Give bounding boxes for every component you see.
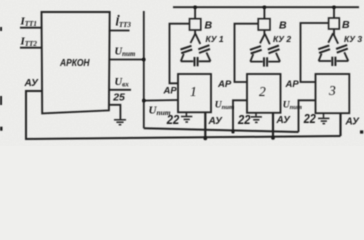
- ground under block 3: [318, 113, 329, 123]
- wire Uпит tap to block 1: [144, 99, 178, 102]
- svg-text:22: 22: [166, 113, 179, 127]
- svg-text:КУ 3: КУ 3: [344, 34, 362, 44]
- ground under block 1: [181, 112, 192, 122]
- ground for pin 25 of АРКОН: [114, 120, 126, 125]
- svg-text:1: 1: [190, 84, 197, 99]
- wire АУ feedback from АРКОН left, down and along bottom (outer АУ rail): [26, 91, 341, 139]
- svg-text:КУ 2: КУ 2: [273, 34, 291, 44]
- svg-text:АУ: АУ: [276, 115, 292, 126]
- ground under block 2: [251, 113, 262, 123]
- svg-text:22: 22: [237, 113, 250, 127]
- svg-text:25: 25: [112, 92, 125, 104]
- svg-text:АР: АР: [285, 79, 300, 90]
- wire Uпит riser to block 3: [299, 100, 316, 132]
- wire АР hook from B1 to block 1: [170, 24, 190, 84]
- wire top supply rail: [173, 6, 359, 8]
- wire input Iтт1: [20, 27, 42, 29]
- svg-text:АУ: АУ: [208, 116, 224, 127]
- wire АУ drop from block 1 to outer rail: [204, 112, 206, 138]
- wire Uвх stub: [110, 89, 131, 91]
- svg-text:В: В: [205, 20, 213, 32]
- junction node top rail to B2: [263, 6, 266, 9]
- svg-text:В: В: [279, 20, 287, 32]
- wire АР hook from B3 to block 3: [301, 23, 329, 82]
- block 3 box: [316, 74, 350, 113]
- wire stem B3 to KU3 apex: [333, 29, 335, 36]
- junction node inner rail riser 2: [231, 130, 234, 133]
- wire Uпит riser to block 2: [233, 100, 247, 132]
- switch B2 box: [258, 19, 270, 30]
- svg-text:3: 3: [328, 83, 336, 98]
- junction node top rail to B1: [193, 6, 196, 9]
- wire vertical Uпит bus: [143, 11, 145, 128]
- capacitor unit KU1 triangle with series caps: [181, 34, 211, 67]
- wire drop from top rail to switch B2: [263, 7, 265, 19]
- svg-text:АР: АР: [163, 86, 178, 97]
- svg-text:АРКОН: АРКОН: [59, 57, 90, 69]
- scan artifact left edge top: [0, 27, 2, 31]
- svg-text:22: 22: [303, 112, 316, 126]
- wire output Iтт3 stub: [110, 30, 130, 32]
- scan artifact left edge middle: [0, 96, 2, 105]
- wire АУ drop from block 2 to outer rail: [272, 113, 274, 138]
- wire АУ drop from block 3 to outer rail: [339, 113, 341, 136]
- switch B3 box: [329, 18, 340, 29]
- svg-text:В: В: [342, 19, 350, 31]
- capacitor unit KU3 triangle with series caps: [318, 33, 348, 66]
- capacitor unit KU2 triangle with series caps: [250, 34, 280, 67]
- junction node Uпит tap to block 1: [142, 99, 146, 103]
- svg-text:АУ: АУ: [345, 117, 361, 128]
- op-amp U1 main unit АРКОН box: [42, 12, 110, 113]
- junction node АУ rail block2: [271, 136, 275, 140]
- junction node АУ rail block1: [204, 137, 208, 141]
- scan artifact dot bottom right: [360, 130, 363, 133]
- block 2 box: [247, 74, 281, 113]
- wire drop from top rail to switch B3: [333, 7, 335, 18]
- wire inner Uпит rail along bottom: [144, 128, 299, 132]
- switch B1 box: [190, 19, 201, 30]
- wire input Iтт2: [20, 47, 42, 49]
- wire drop from top rail to switch B1: [194, 7, 196, 19]
- scan artifact left edge lower: [0, 127, 3, 131]
- junction node top rail to B3: [332, 6, 335, 9]
- wire Uпит from АРКОН to vertical bus: [110, 59, 144, 61]
- junction node Uпит bus at АРКОН pin: [142, 58, 146, 62]
- svg-text:КУ 1: КУ 1: [206, 34, 224, 44]
- block 1 box: [178, 74, 211, 112]
- svg-text:АР: АР: [217, 79, 232, 90]
- wire АР hook from B2 to block 2: [235, 24, 259, 82]
- wire pin 25 to ground: [109, 105, 120, 119]
- wire stem B2 to KU2 apex: [263, 30, 265, 36]
- svg-text:АУ: АУ: [24, 78, 40, 89]
- svg-text:2: 2: [259, 84, 266, 99]
- wire stem B1 to KU1 apex: [194, 30, 196, 36]
